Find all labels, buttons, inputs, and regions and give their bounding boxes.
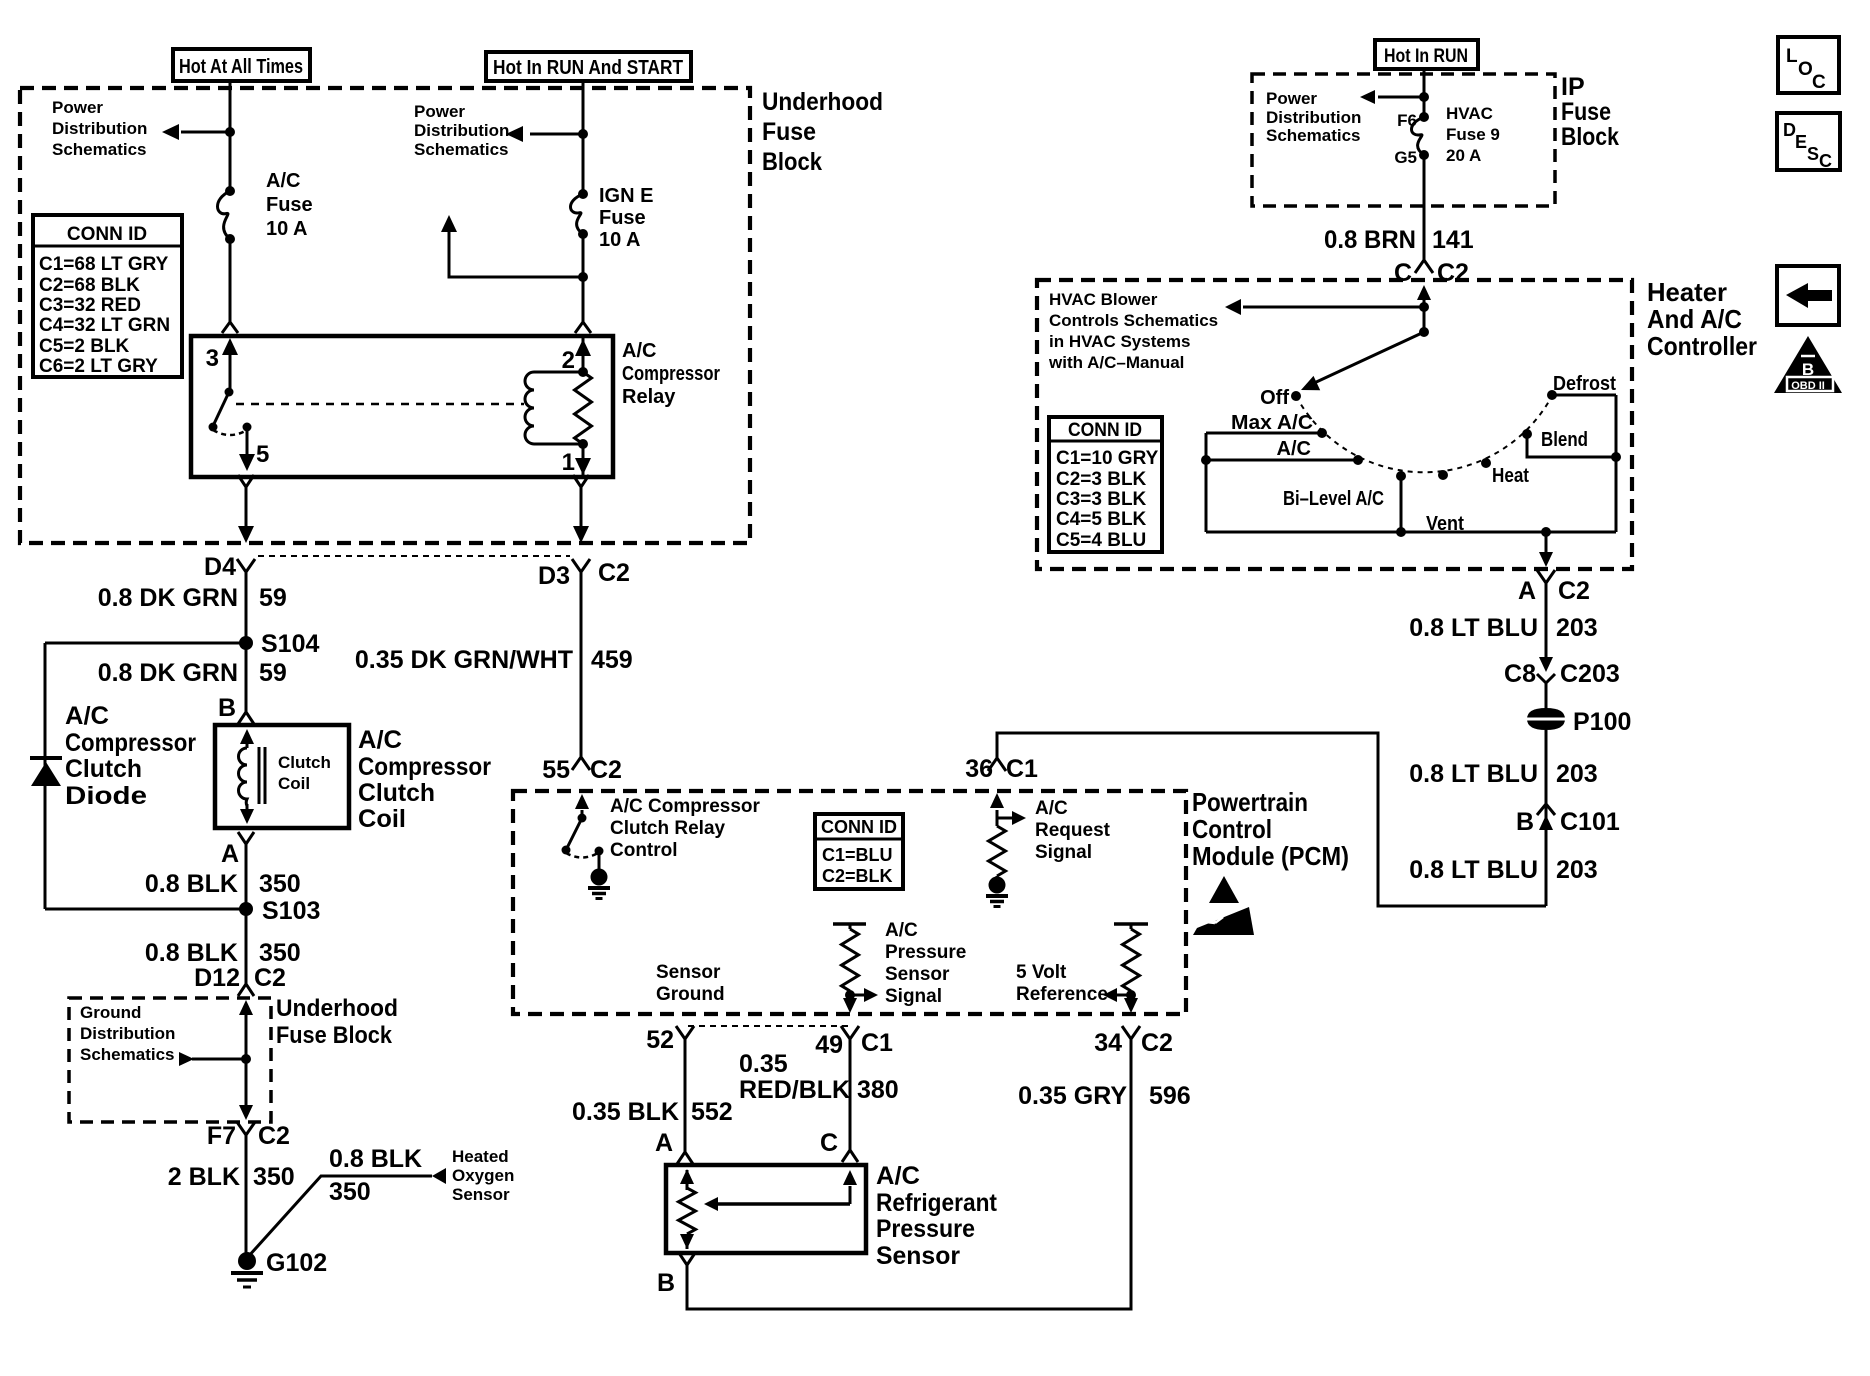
wire Defrost to right bus [1552,394,1616,397]
svg-text:Diode: Diode [65,782,147,810]
svg-text:A: A [655,1129,673,1157]
svg-text:141: 141 [1432,226,1474,254]
svg-text:A/C: A/C [266,170,300,192]
svg-text:Schematics: Schematics [414,140,509,159]
node junction to up-arrow branch [578,272,588,282]
svg-text:10 A: 10 A [599,229,641,251]
connector pin 34 C2 [1122,1026,1140,1039]
resistor A/C pressure sensor signal [849,924,852,929]
svg-text:HVAC: HVAC [1446,104,1493,123]
wire into controller with up arrow [1423,300,1426,332]
clutch coil core lines [258,747,261,804]
svg-text:350: 350 [329,1178,371,1206]
svg-text:350: 350 [259,870,301,898]
wire from A/C fuse to relay pin 3 [229,239,232,322]
svg-text:Sensor: Sensor [876,1242,960,1270]
PCM switch blade [566,818,582,850]
5V ref output arrow down [1124,998,1138,1013]
svg-text:Request: Request [1035,820,1111,841]
svg-text:C1: C1 [1006,755,1038,783]
wire Max A/C to left bus [1206,432,1322,435]
relay pin 5 wire with down arrow [246,427,249,456]
svg-text:Heated: Heated [452,1147,509,1166]
wire corner route to PCM pin 36 [997,733,1546,906]
svg-text:B: B [657,1269,675,1297]
wire P100 to C101 [1545,730,1548,906]
wire S104 to clutch coil pin B [245,643,248,712]
svg-text:34: 34 [1094,1029,1122,1057]
svg-text:0.35 DK GRN/WHT: 0.35 DK GRN/WHT [355,646,573,674]
PCM switch dashed travel arc [566,853,598,858]
svg-text:C2: C2 [1141,1029,1173,1057]
svg-text:3: 3 [206,345,219,372]
svg-text:55: 55 [542,756,570,784]
svg-text:Hot At All Times: Hot At All Times [179,56,303,78]
svg-text:49: 49 [815,1031,843,1059]
connector pin 49 C1 [841,1026,859,1039]
connector fork at clutch coil pin B [238,712,254,724]
connector C C2 [1415,260,1433,273]
ground G102 [238,1252,256,1270]
ground inside PCM (clutch relay control) [591,869,608,886]
svg-text:OBD II: OBD II [1791,380,1825,392]
svg-text:A/C Compressor: A/C Compressor [610,796,761,817]
connector C8 C203 [1539,657,1553,672]
svg-text:Fuse: Fuse [1561,98,1611,126]
wire pin 34 to sensor pin B (0.35 GRY) [687,1039,1131,1309]
svg-text:0.8 BLK: 0.8 BLK [145,870,238,898]
PCM switch contact to ground [595,847,604,856]
sensor wiper arrow [849,1186,852,1204]
ground inside PCM (A/C request) [996,876,999,877]
icon OBD II triangle [1774,336,1842,393]
resistor A/C request pull-down [989,826,1006,876]
svg-text:Power: Power [52,98,103,117]
svg-text:C2=BLK: C2=BLK [822,866,893,886]
table CONN ID PCM [815,814,903,889]
wire relay pin5 to fuse block edge [245,487,248,527]
svg-text:Schematics: Schematics [52,140,147,159]
svg-text:RED/BLK: RED/BLK [739,1076,850,1104]
dashed box Ground Distribution (Underhood Fuse Block) [69,998,271,1122]
fuse A/C Fuse 10 A [218,191,231,239]
svg-text:C101: C101 [1560,808,1620,836]
svg-text:Module (PCM): Module (PCM) [1192,841,1349,871]
svg-text:Bi–Level A/C: Bi–Level A/C [1283,488,1384,510]
svg-text:Schematics: Schematics [1266,126,1361,145]
wire pin 52 to sensor pin A [684,1039,687,1152]
svg-text:Signal: Signal [885,986,942,1007]
wire branch to heated oxygen sensor [247,1176,432,1258]
relay switch travel dashed arc [213,430,247,435]
svg-text:A/C: A/C [622,340,656,362]
svg-text:C: C [820,1129,838,1157]
connector fork sensor pin C [842,1150,858,1162]
svg-text:G102: G102 [266,1249,327,1277]
connector fork at relay pin 3 [222,322,238,333]
svg-text:A/C: A/C [358,726,402,754]
connector A C2 controller output [1537,570,1555,583]
svg-text:0.8 BLK: 0.8 BLK [329,1145,422,1173]
relay pin 3 arrow up [229,352,232,392]
svg-text:A/C: A/C [885,920,918,941]
svg-text:Controller: Controller [1647,331,1757,361]
svg-text:Relay: Relay [622,386,676,408]
svg-text:459: 459 [591,646,633,674]
svg-text:G5: G5 [1394,148,1417,167]
svg-text:Signal: Signal [1035,842,1092,863]
wire arrow to HVAC Blower Controls Schematics [1243,306,1424,309]
svg-text:Power: Power [1266,89,1317,108]
relay switch blade [213,392,229,426]
wire bottom bus [1206,531,1616,534]
svg-text:F6: F6 [1397,111,1417,130]
svg-text:with A/C–Manual: with A/C–Manual [1048,353,1184,372]
svg-text:Schematics: Schematics [80,1045,175,1064]
relay pin 5 contact [243,423,252,432]
svg-text:Compressor: Compressor [358,753,491,781]
svg-text:C203: C203 [1560,660,1620,688]
thin dashed connector line pins 52-49 [688,1025,848,1027]
svg-text:Clutch: Clutch [278,753,331,772]
table CONN ID underhood [33,215,182,377]
rotary switch dashed arc [1296,395,1553,472]
icon box DESC [1777,113,1840,170]
svg-text:C2: C2 [258,1122,290,1150]
svg-text:2 BLK: 2 BLK [168,1163,240,1191]
dashed box Heater And A/C Controller [1037,280,1632,569]
svg-text:Blend: Blend [1541,429,1588,451]
node junction ground schematics arrow [241,1054,251,1064]
component box A/C Refrigerant Pressure Sensor [666,1165,866,1253]
relay pin 1 wire arrow down [582,444,585,477]
wire from IGN E fuse to relay pin 2 [582,234,585,322]
pressure signal branch arrow right [850,994,864,997]
svg-text:Control: Control [610,840,678,861]
svg-text:C: C [1394,259,1412,287]
svg-text:Reference: Reference [1016,984,1108,1005]
rotary contact Off [1291,391,1301,401]
svg-text:5: 5 [256,441,269,468]
node junction on hot-at-all-times feed [225,127,235,137]
connector pin 36 C1 [988,758,1006,771]
rotary contact Defrost [1547,390,1557,400]
svg-text:Clutch: Clutch [65,755,142,783]
svg-text:Compressor: Compressor [65,729,196,757]
svg-text:Max A/C: Max A/C [1231,412,1313,434]
svg-text:C: C [1812,72,1826,93]
wire controller output down [1545,532,1548,552]
dashed box Underhood Fuse Block [20,88,750,543]
svg-text:Defrost: Defrost [1553,373,1616,395]
node pressure signal junction [845,990,855,1000]
node 5V ref junction [1126,990,1136,1000]
wire Hot In RUN to HVAC fuse [1423,69,1426,117]
connector F7 C2 [237,1122,255,1135]
wire S103 to D12 [245,909,248,984]
svg-text:350: 350 [253,1163,295,1191]
relay coil dashed mechanical link [236,403,524,406]
label box Hot At All Times [173,49,310,81]
svg-text:C1=68 LT GRY: C1=68 LT GRY [39,254,169,275]
ESD sensitive device symbol [1209,876,1239,903]
connector fork below relay pin1 [573,475,589,487]
svg-text:S: S [1807,144,1819,164]
svg-text:C2=68 BLK: C2=68 BLK [39,275,140,296]
svg-text:Sensor: Sensor [885,964,950,985]
svg-text:596: 596 [1149,1082,1191,1110]
svg-text:L: L [1786,46,1798,67]
svg-text:Distribution: Distribution [80,1024,175,1043]
wire arrow to Power Distribution Schematics (left) [181,131,230,134]
svg-text:E: E [1795,132,1807,152]
svg-text:0.8 DK GRN: 0.8 DK GRN [98,659,238,687]
svg-text:Distribution: Distribution [414,121,509,140]
relay pin 2 wire arrow up [582,336,585,372]
svg-text:59: 59 [259,659,287,687]
node splice S103 [239,902,253,916]
svg-text:20 A: 20 A [1446,146,1481,165]
node junction A/C line [1201,455,1211,465]
connector B C101 [1537,804,1555,815]
svg-text:Block: Block [762,148,822,176]
svg-text:CONN ID: CONN ID [821,817,897,837]
rotary contact A/C [1353,455,1363,465]
svg-text:Heat: Heat [1492,465,1529,487]
svg-text:Clutch Relay: Clutch Relay [610,818,726,839]
svg-text:Fuse 9: Fuse 9 [1446,125,1500,144]
resistor 5 volt reference [1130,924,1133,929]
relay coil inductor [525,372,534,444]
svg-text:Ground: Ground [80,1003,141,1022]
node splice S104 [239,636,253,650]
node pin2 junction [578,367,588,377]
wire A to S103 [245,844,248,909]
svg-text:552: 552 [691,1098,733,1126]
sensor potentiometer resistor [686,1170,689,1190]
wire relay pin1 to fuse block edge [580,487,583,527]
svg-text:C5=2 BLK: C5=2 BLK [39,336,130,357]
svg-text:Clutch: Clutch [358,779,435,807]
svg-text:B: B [1516,808,1534,836]
svg-text:Hot In RUN: Hot In RUN [1384,46,1468,67]
svg-text:A/C: A/C [1035,798,1068,819]
PCM clutch relay control switch arrow [581,810,584,818]
node junction on run/start feed [578,129,588,139]
svg-text:C2: C2 [254,964,286,992]
PCM pressure sensor signal resistor top bar [833,922,866,926]
label box Hot In RUN And START [486,52,691,81]
svg-text:A/C: A/C [1277,438,1311,460]
svg-text:C1=BLU: C1=BLU [822,845,893,865]
svg-text:S103: S103 [262,897,320,925]
svg-text:0.35 BLK: 0.35 BLK [572,1098,679,1126]
rotary contact Heat [1481,458,1491,468]
PCM 5 volt reference resistor top bar [1114,922,1148,926]
wire pin 49 to sensor pin C [849,1039,852,1150]
rotary contact Vent [1438,470,1448,480]
svg-text:0.8 LT BLU: 0.8 LT BLU [1409,760,1538,788]
wire branch S104 to diode [45,642,246,645]
svg-text:C3=3 BLK: C3=3 BLK [1056,489,1147,510]
wire from Hot At All Times down to A/C fuse [229,81,232,191]
svg-text:Control: Control [1192,814,1272,844]
svg-text:203: 203 [1556,760,1598,788]
svg-text:C2: C2 [1437,259,1469,287]
wire arrow to Power Distribution Schematics (middle) [530,133,583,136]
svg-text:Heater: Heater [1647,277,1727,307]
svg-text:0.35: 0.35 [739,1050,788,1078]
svg-text:IP: IP [1561,73,1585,101]
node junction controller output [1541,527,1551,537]
svg-text:S104: S104 [261,630,319,658]
svg-text:Sensor: Sensor [452,1185,510,1204]
svg-text:Fuse Block: Fuse Block [276,1022,393,1049]
PCM A/C request input arrow [996,810,999,826]
connector fork at clutch coil pin A [238,832,254,844]
relay box A/C Compressor Relay [191,336,613,477]
wire branch S103 to diode [45,908,246,911]
svg-text:10 A: 10 A [266,218,308,240]
svg-text:A/C: A/C [876,1162,920,1190]
dashed box IP Fuse Block [1252,74,1555,206]
svg-text:Pressure: Pressure [876,1215,975,1243]
label box Hot In RUN [1375,40,1478,69]
svg-text:A/C: A/C [65,702,109,730]
svg-text:Power: Power [414,102,465,121]
relay coil resistor [575,372,592,444]
PCM switch pivot [578,814,587,823]
svg-text:C: C [1819,151,1832,171]
fuse IGN E Fuse 10 A [571,194,584,234]
pressure signal output arrow down [843,998,857,1013]
svg-text:350: 350 [259,939,301,967]
node junction IP feed [1419,92,1429,102]
svg-text:52: 52 [646,1026,674,1054]
connector D4 [237,559,255,572]
connector fork sensor pin A [677,1152,693,1164]
thin dashed connector line D4-D3 [258,555,570,557]
wire Blend to right bus [1527,434,1616,457]
svg-text:59: 59 [259,584,287,612]
connector fork below relay pin5 [238,475,254,487]
grommet P100 [1527,708,1565,730]
wire A C2 to C8 [1545,583,1548,657]
wire branch with up arrow [449,232,583,277]
switch feed diagonal arrow to Off [1312,332,1424,384]
svg-text:Ground: Ground [656,984,725,1005]
svg-text:C4=32 LT GRN: C4=32 LT GRN [39,315,170,336]
svg-text:C2: C2 [1558,577,1590,605]
table CONN ID heater controller [1049,417,1162,552]
connector 55 C2 at PCM [572,757,590,770]
svg-text:A: A [221,840,239,868]
svg-text:C2: C2 [598,559,630,587]
svg-text:203: 203 [1556,856,1598,884]
svg-text:in HVAC Systems: in HVAC Systems [1049,332,1190,351]
svg-text:36: 36 [965,755,993,783]
svg-text:D12: D12 [194,964,240,992]
svg-text:0.8 LT BLU: 0.8 LT BLU [1409,856,1538,884]
svg-text:F7: F7 [207,1122,236,1150]
svg-text:D4: D4 [204,553,236,581]
rotary contact Blend [1522,429,1532,439]
svg-text:C2=3 BLK: C2=3 BLK [1056,469,1147,490]
svg-text:Fuse: Fuse [762,118,816,146]
svg-text:Underhood: Underhood [276,995,398,1022]
fuse HVAC Fuse 9 20 A [1412,117,1425,155]
clutch coil winding with arrows [246,733,249,748]
svg-text:HVAC Blower: HVAC Blower [1049,290,1158,309]
svg-text:Oxygen: Oxygen [452,1166,514,1185]
svg-text:Hot In RUN And START: Hot In RUN And START [493,57,683,79]
rotary contact Bi-Level A/C [1396,471,1406,481]
svg-text:C5=4 BLU: C5=4 BLU [1056,530,1146,551]
svg-text:0.35 GRY: 0.35 GRY [1018,1082,1127,1110]
svg-text:D3: D3 [538,562,570,590]
rotary contact Max A/C [1317,428,1327,438]
svg-text:Sensor: Sensor [656,962,721,983]
wire left bus vertical [1205,433,1208,532]
wire C8 to P100 [1545,683,1548,709]
svg-text:203: 203 [1556,614,1598,642]
svg-text:C4=5 BLK: C4=5 BLK [1056,509,1147,530]
wire F7 to G102 [245,1135,248,1261]
svg-text:Coil: Coil [278,774,310,793]
svg-text:0.8 LT BLU: 0.8 LT BLU [1409,614,1538,642]
wire arrow from Ground Distribution Schematics [192,1058,246,1061]
svg-text:Distribution: Distribution [52,119,147,138]
svg-text:Compressor: Compressor [622,363,720,385]
svg-text:380: 380 [857,1076,899,1104]
svg-text:Refrigerant: Refrigerant [876,1189,998,1217]
wire D4 to S104 [245,572,248,643]
svg-text:5 Volt: 5 Volt [1016,962,1067,983]
connector fork sensor pin B [679,1253,695,1265]
svg-text:Fuse: Fuse [599,207,646,229]
svg-text:C8: C8 [1504,660,1536,688]
wire A/C to left bus [1206,459,1358,462]
svg-text:Controls Schematics: Controls Schematics [1049,311,1218,330]
wire D3 to PCM pin 55 [580,572,583,757]
svg-text:2: 2 [562,347,575,374]
svg-text:Distribution: Distribution [1266,108,1361,127]
svg-text:CONN ID: CONN ID [67,224,147,245]
wire HVAC fuse to C C2 [1423,155,1426,260]
svg-text:0.8 DK GRN: 0.8 DK GRN [98,584,238,612]
node pin1 junction [578,439,588,449]
svg-text:Powertrain: Powertrain [1192,787,1308,817]
svg-text:Coil: Coil [358,805,406,833]
svg-text:C1=10 GRY: C1=10 GRY [1056,448,1159,469]
svg-text:Block: Block [1561,123,1619,151]
svg-text:C2: C2 [590,756,622,784]
svg-text:Fuse: Fuse [266,194,313,216]
wire arrow to Power Distribution Schematics (IP) [1378,96,1424,99]
svg-text:B: B [218,694,236,722]
wire right bus vertical [1615,395,1618,532]
svg-text:0.8 BLK: 0.8 BLK [145,939,238,967]
node junction switch feed [1419,327,1429,337]
connector D3 C2 [572,559,590,572]
svg-text:IGN E: IGN E [599,185,653,207]
svg-text:1: 1 [562,449,575,476]
svg-text:C6=2 LT GRY: C6=2 LT GRY [39,356,158,377]
node junction HVAC blower branch [1419,302,1429,312]
icon box LOC [1778,37,1839,93]
svg-text:Off: Off [1260,387,1289,409]
component box A/C Compressor Clutch Coil [215,725,349,828]
